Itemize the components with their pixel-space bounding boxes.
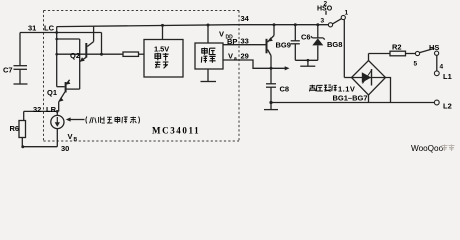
svg-text:3: 3 (321, 18, 325, 25)
svg-text:1.5V: 1.5V (154, 45, 169, 54)
svg-text:32: 32 (33, 105, 41, 114)
svg-text:Q1: Q1 (47, 88, 57, 97)
svg-text:R2: R2 (392, 43, 402, 52)
svg-text:4: 4 (440, 64, 444, 71)
svg-text:31: 31 (28, 24, 36, 33)
svg-text:R6: R6 (10, 124, 20, 133)
svg-text:MC34011: MC34011 (152, 126, 200, 136)
svg-text:LR: LR (46, 105, 57, 114)
svg-text:LC: LC (44, 24, 55, 33)
svg-text:C7: C7 (3, 66, 13, 75)
svg-text:1.1V: 1.1V (338, 85, 355, 94)
svg-text:34: 34 (241, 14, 250, 23)
svg-text:L1: L1 (443, 72, 452, 81)
svg-text:BG1–BG7: BG1–BG7 (333, 94, 368, 103)
svg-text:1: 1 (345, 10, 349, 17)
svg-text:5: 5 (414, 61, 418, 68)
svg-text:HS: HS (429, 43, 439, 52)
svg-text:V: V (219, 30, 224, 39)
svg-text:29: 29 (241, 51, 249, 60)
svg-text:BG9: BG9 (276, 41, 291, 50)
svg-text:30: 30 (61, 144, 69, 153)
svg-text:WooQoo: WooQoo (411, 144, 444, 153)
svg-text:L2: L2 (443, 102, 452, 111)
svg-text:BG8: BG8 (327, 40, 342, 49)
svg-text:BP: BP (227, 37, 237, 46)
svg-text:a: a (234, 56, 237, 62)
svg-text:V: V (228, 51, 233, 60)
svg-text:33: 33 (241, 37, 249, 46)
svg-text:2: 2 (324, 1, 328, 8)
svg-text:C6: C6 (301, 33, 311, 42)
svg-text:B: B (74, 137, 78, 143)
svg-text:Q2: Q2 (70, 51, 80, 60)
svg-text:C8: C8 (280, 85, 290, 94)
svg-text:V: V (68, 132, 73, 141)
